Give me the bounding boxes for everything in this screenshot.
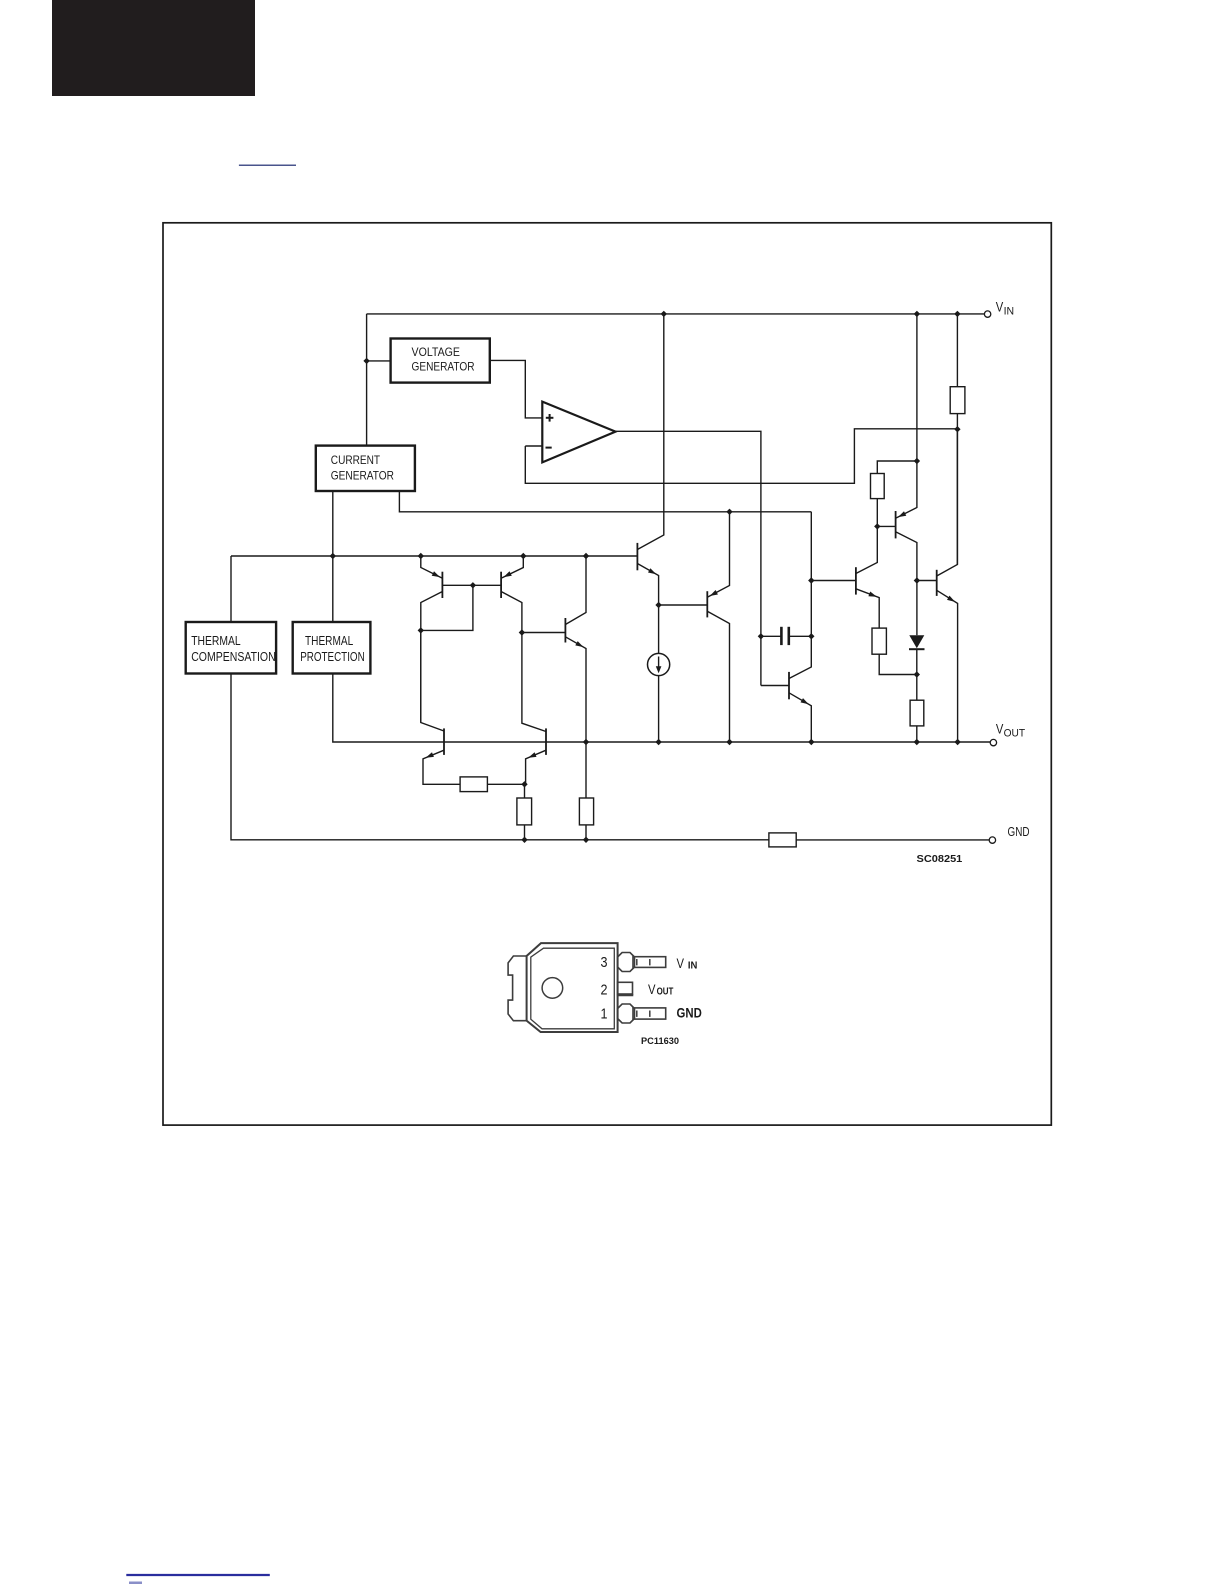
junction Q8 collector / Q9 base / diode: [914, 577, 920, 583]
pin 1 label GND: [677, 1006, 703, 1021]
transistor Q8: [877, 461, 917, 581]
svg-text:GND: GND: [1008, 824, 1030, 839]
transistor Q5: [522, 556, 586, 742]
wire GND rail right: [796, 839, 989, 841]
resistor R3: [872, 628, 917, 674]
svg-text:GENERATOR: GENERATOR: [331, 470, 394, 483]
transistor Q11: [526, 728, 546, 784]
svg-text:SC08251: SC08251: [917, 853, 963, 865]
svg-text:V: V: [677, 956, 685, 971]
resistor R2: [871, 461, 917, 526]
svg-text:2: 2: [601, 982, 608, 998]
junction Q4 collector / Q5 base: [519, 629, 525, 635]
label PC11630: [641, 1036, 679, 1047]
wire to voltage generator: [367, 360, 391, 362]
wire op-amp feedback: [525, 429, 957, 484]
wire mirror bus to thermal compensation: [230, 556, 232, 622]
transistor Q3: [421, 556, 473, 731]
svg-text:3: 3: [601, 955, 608, 971]
transistor Q10: [421, 630, 460, 784]
transistor Q2: [707, 512, 729, 742]
resistor R7: [579, 742, 593, 840]
resistor R6: [517, 784, 532, 840]
svg-text:GENERATOR: GENERATOR: [412, 361, 475, 374]
package tab: [508, 956, 526, 1021]
block CURRENT GENERATOR: [316, 446, 415, 491]
junction rail / Q2 collector: [726, 739, 732, 745]
svg-text:COMPENSATION: COMPENSATION: [191, 650, 276, 664]
svg-text:GND: GND: [677, 1006, 703, 1021]
node GND terminal: [989, 837, 995, 843]
svg-text:IN: IN: [688, 960, 698, 972]
svg-text:V: V: [996, 300, 1004, 315]
junction V_IN / Q8 emitter line: [914, 311, 920, 317]
wire V_IN bus: [367, 313, 985, 315]
svg-text:OUT: OUT: [657, 986, 674, 998]
svg-text:VOLTAGE: VOLTAGE: [412, 346, 461, 359]
junction capacitor right / Q6 collector: [808, 633, 814, 639]
junction Q1 emitter / Q2 base: [655, 602, 661, 608]
junction rail / Q5 emitter: [583, 739, 589, 745]
junction GND / R6: [521, 837, 527, 843]
header underline: [239, 164, 296, 166]
pin 2 lead: [617, 982, 634, 995]
wire thermal protection riser: [332, 556, 334, 622]
junction GND / R7: [583, 837, 589, 843]
capacitor C1: [761, 627, 811, 645]
junction V_IN / Q1 collector: [661, 311, 667, 317]
junction Q6 collector / Q7 base: [808, 577, 814, 583]
pin 1 lead: [618, 1004, 666, 1023]
junction Q3 collector tie: [418, 627, 424, 633]
label SC08251: [917, 853, 963, 865]
resistor R5: [460, 777, 524, 792]
node V_IN terminal: [984, 311, 990, 317]
junction rail / R4: [914, 739, 920, 745]
wire divider to Q9 collector: [956, 429, 958, 564]
junction mirror bus / Q3 emitter: [418, 553, 424, 559]
black header block: [52, 0, 255, 96]
footer rule: [126, 1575, 269, 1584]
resistor R1: [950, 314, 965, 429]
diagram frame: [163, 223, 1051, 1125]
svg-text:PC11630: PC11630: [641, 1036, 679, 1047]
transistor Q4: [473, 556, 546, 732]
junction output / capacitor left: [758, 633, 764, 639]
package hole: [542, 978, 563, 999]
svg-text:THERMAL: THERMAL: [305, 634, 353, 648]
label GND: [1008, 824, 1030, 839]
svg-text:IN: IN: [1004, 305, 1015, 317]
wire thermal protection to output rail: [333, 674, 990, 743]
transistor Q7: [856, 526, 879, 628]
junction mirror bus / Q4 emitter: [520, 553, 526, 559]
pin 2 label V_OUT: [648, 982, 674, 998]
pin 2 number: [601, 982, 608, 998]
junction rail / Q6 emitter: [808, 739, 814, 745]
op-amp U1: [542, 402, 615, 463]
wire op-amp - input: [525, 445, 542, 447]
junction mirror bus / thermal protection: [330, 553, 336, 559]
junction rail / Q9 emitter: [954, 739, 960, 745]
package body outline: [527, 943, 618, 1032]
transistor Q1: [637, 314, 663, 605]
junction mirror bus / Q5 collector: [583, 553, 589, 559]
svg-text:OUT: OUT: [1004, 728, 1026, 740]
wire Q7 base: [811, 580, 856, 582]
wire Q9 base: [917, 580, 937, 582]
pin 3 label V_IN: [677, 956, 698, 972]
pin 3 lead: [618, 953, 666, 972]
current source I1: [648, 605, 670, 742]
wire mirror bus: [231, 555, 637, 557]
junction bias line / Q2 emitter: [726, 509, 732, 515]
wire op-amp output: [616, 431, 761, 685]
junction voltage-generator tap: [363, 358, 369, 364]
wire V_IN drop to generators: [366, 314, 368, 446]
block THERMAL PROTECTION: [293, 622, 371, 674]
svg-text:THERMAL: THERMAL: [191, 634, 241, 648]
junction V_IN / R1: [954, 311, 960, 317]
svg-text:V: V: [648, 982, 656, 997]
resistor R8: [769, 833, 796, 847]
junction feedback / divider: [954, 426, 960, 432]
block VOLTAGE GENERATOR: [391, 339, 490, 383]
wire thermal compensation to GND: [231, 674, 769, 840]
wire Q1 emitter to Q2 base: [659, 604, 708, 606]
svg-text:1: 1: [601, 1007, 608, 1023]
pin 3 number: [601, 955, 608, 971]
wire V_IN to Q8 emitter: [916, 314, 918, 461]
block THERMAL COMPENSATION: [186, 622, 276, 674]
label V_IN: [996, 300, 1014, 318]
label V_OUT: [996, 721, 1025, 739]
svg-text:V: V: [996, 721, 1004, 736]
wire mirror base tie: [421, 585, 473, 630]
junction R3 / diode cathode: [914, 671, 920, 677]
junction V_IN drop / R2: [914, 458, 920, 464]
junction rail / current source: [655, 739, 661, 745]
resistor R4: [910, 675, 924, 743]
transistor Q9: [937, 429, 958, 742]
wire voltage generator to op-amp +: [490, 360, 543, 418]
diode D1: [909, 581, 925, 675]
wire current generator right output: [399, 491, 811, 512]
junction Q11 emitter / R5 / R6: [521, 781, 527, 787]
wire op-amp output to Q6 base: [761, 685, 789, 687]
pin 1 number: [601, 1007, 608, 1023]
junction R2 / Q8 base / Q7 collector: [874, 523, 880, 529]
node V_OUT terminal: [990, 739, 996, 745]
wire current generator left output: [332, 491, 334, 556]
svg-text:PROTECTION: PROTECTION: [300, 650, 365, 664]
transistor Q6: [789, 512, 811, 742]
svg-text:CURRENT: CURRENT: [331, 454, 380, 467]
junction Q3/Q4 base tie: [470, 582, 476, 588]
